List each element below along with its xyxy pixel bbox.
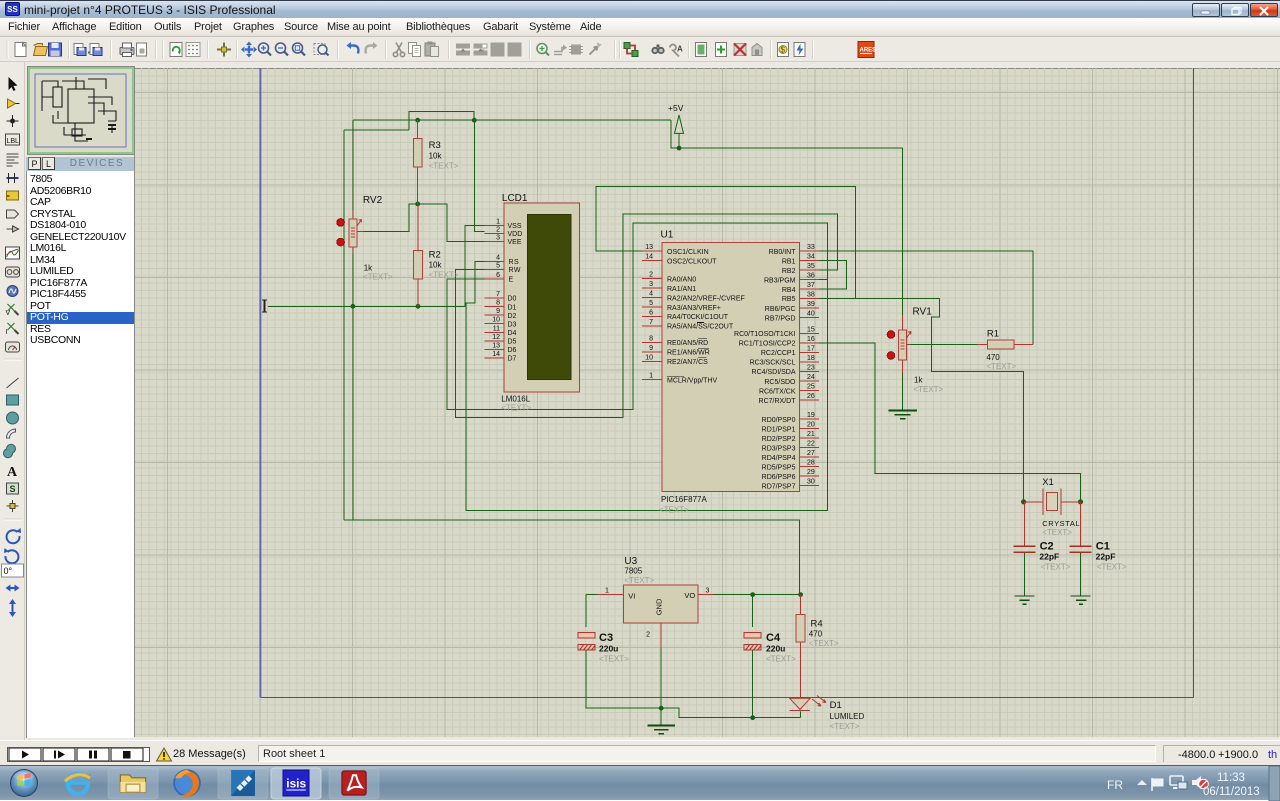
svg-text:RD7/PSP7: RD7/PSP7 bbox=[762, 483, 796, 490]
tool closed-path bbox=[4, 444, 16, 457]
svg-text:U1: U1 bbox=[661, 229, 674, 240]
wire C2 below plates bbox=[1024, 553, 1026, 596]
svg-text:R4: R4 bbox=[811, 619, 823, 630]
tool subcircuit bbox=[7, 191, 19, 200]
icon electrical-check bbox=[794, 43, 805, 57]
svg-text:1: 1 bbox=[605, 588, 609, 595]
svg-text:RC6/TX/CK: RC6/TX/CK bbox=[759, 388, 796, 395]
resistor R4 bbox=[796, 595, 839, 699]
U1 left pins bbox=[642, 251, 662, 380]
tool instrument bbox=[6, 342, 20, 352]
tool rotate-ccw bbox=[5, 550, 18, 563]
svg-text:R3: R3 bbox=[429, 140, 441, 151]
icon copy bbox=[409, 43, 421, 57]
wire +5V top rail y=120 bbox=[344, 112, 903, 149]
capacitor C2 bbox=[1014, 502, 1071, 572]
U1 left pin names bbox=[667, 249, 745, 385]
svg-text:U3: U3 bbox=[624, 556, 637, 567]
tool mirror-x bbox=[6, 585, 20, 592]
svg-text:7805: 7805 bbox=[624, 566, 642, 575]
svg-text:$: $ bbox=[781, 45, 786, 54]
tray volume muted bbox=[1192, 776, 1208, 789]
svg-text:isis: isis bbox=[286, 776, 306, 790]
icon wire-autorouter bbox=[624, 43, 638, 57]
overview sheet border bbox=[35, 74, 126, 147]
svg-text:RW: RW bbox=[509, 267, 522, 274]
icon pick bbox=[537, 44, 549, 56]
svg-text:RA2/AN2/VREF-/CVREF: RA2/AN2/VREF-/CVREF bbox=[667, 295, 745, 302]
resistor R1 bbox=[977, 329, 1033, 372]
icon import bbox=[74, 44, 86, 56]
tool graph bbox=[6, 247, 20, 259]
icon zoom-out bbox=[276, 43, 289, 56]
icon add-sheet bbox=[716, 43, 727, 57]
wire C3 verticals bbox=[586, 595, 801, 718]
svg-text:06/11/2013: 06/11/2013 bbox=[1203, 786, 1260, 798]
show desktop bbox=[1269, 766, 1280, 801]
svg-text:S: S bbox=[10, 484, 16, 494]
svg-text:3: 3 bbox=[496, 235, 500, 242]
svg-text:22: 22 bbox=[807, 441, 815, 448]
svg-text:RA5/AN4/SS/C2OUT: RA5/AN4/SS/C2OUT bbox=[667, 324, 734, 331]
LCD1 pin names bbox=[508, 223, 523, 363]
tool tape bbox=[6, 267, 20, 277]
svg-text:2: 2 bbox=[646, 632, 650, 639]
svg-text:D4: D4 bbox=[508, 330, 517, 337]
svg-text:1k: 1k bbox=[364, 264, 373, 273]
svg-text:RD5/PSP5: RD5/PSP5 bbox=[762, 464, 796, 471]
svg-text:26: 26 bbox=[807, 393, 815, 400]
svg-text:RC0/T1OSO/T1CKI: RC0/T1OSO/T1CKI bbox=[734, 331, 796, 338]
svg-text:RD3/PSP3: RD3/PSP3 bbox=[762, 445, 796, 452]
U1 pin name overlines bbox=[667, 322, 709, 376]
wire RV1 top drop bbox=[902, 148, 904, 315]
wire pin34-pin37 hook bbox=[819, 261, 846, 290]
svg-text:VI: VI bbox=[628, 592, 635, 601]
U3 pin numbers bbox=[605, 588, 710, 639]
capacitor C1 bbox=[1070, 502, 1127, 572]
svg-text:30: 30 bbox=[807, 479, 815, 486]
svg-text:25: 25 bbox=[807, 384, 815, 391]
tool bus bbox=[7, 177, 19, 179]
svg-text:3: 3 bbox=[706, 588, 710, 595]
svg-text:470: 470 bbox=[986, 353, 1000, 362]
svg-text:19: 19 bbox=[807, 412, 815, 419]
svg-text:12: 12 bbox=[492, 334, 500, 341]
svg-text:10k: 10k bbox=[429, 151, 443, 160]
tool circle bbox=[7, 412, 19, 424]
svg-text:+5V: +5V bbox=[668, 103, 684, 113]
potentiometer RV2 bbox=[337, 195, 393, 282]
ground U3 bbox=[648, 725, 675, 734]
start orb bbox=[10, 769, 38, 797]
svg-text:LBL: LBL bbox=[7, 138, 20, 145]
svg-text:<TEXT>: <TEXT> bbox=[1097, 563, 1127, 572]
wire RV2 top drop bbox=[352, 120, 354, 212]
svg-text:6: 6 bbox=[649, 309, 653, 316]
svg-text:D7: D7 bbox=[508, 356, 517, 363]
power symbol +5V bbox=[668, 103, 684, 148]
svg-text:RC4/SDI/SDA: RC4/SDI/SDA bbox=[752, 369, 796, 376]
svg-text:RS: RS bbox=[509, 259, 520, 266]
tool line bbox=[7, 378, 19, 388]
svg-text:28: 28 bbox=[807, 460, 815, 467]
tool text bbox=[7, 154, 19, 166]
taskbar isis button (active) bbox=[271, 768, 321, 799]
icon print-mark bbox=[137, 43, 147, 56]
svg-text:RC7/RX/DT: RC7/RX/DT bbox=[759, 398, 797, 405]
svg-text:10k: 10k bbox=[429, 261, 443, 270]
svg-text:RD1/PSP1: RD1/PSP1 bbox=[762, 426, 796, 433]
svg-text:D6: D6 bbox=[508, 347, 517, 354]
svg-text:VSS: VSS bbox=[508, 223, 522, 230]
icon refresh bbox=[170, 43, 182, 57]
svg-text:RC2/CCP1: RC2/CCP1 bbox=[761, 350, 796, 357]
svg-text:220u: 220u bbox=[766, 643, 785, 653]
resistor R2 bbox=[414, 204, 459, 306]
wire U3 GND down bbox=[660, 648, 662, 725]
tool voltage-probe bbox=[8, 304, 15, 311]
ground C2 bbox=[1015, 596, 1035, 604]
wire U3 VO rail bbox=[713, 594, 801, 596]
svg-text:RA4/T0CKI/C1OUT: RA4/T0CKI/C1OUT bbox=[667, 314, 729, 321]
svg-text:MCLR/Vpp/THV: MCLR/Vpp/THV bbox=[667, 378, 718, 385]
icon block-move bbox=[474, 44, 488, 56]
svg-text:39: 39 bbox=[807, 301, 815, 308]
svg-text:6: 6 bbox=[496, 272, 500, 279]
svg-text:21: 21 bbox=[807, 431, 815, 438]
svg-text:D5: D5 bbox=[508, 339, 517, 346]
icon bom bbox=[778, 43, 789, 57]
icon grid bbox=[186, 43, 200, 57]
svg-text:24: 24 bbox=[807, 374, 815, 381]
LCD LCD1 bbox=[501, 193, 579, 412]
capacitor C3 bbox=[578, 632, 629, 663]
svg-text:<TEXT>: <TEXT> bbox=[363, 273, 393, 282]
svg-text:9: 9 bbox=[649, 345, 653, 352]
tray network bbox=[1170, 776, 1187, 789]
U1 right pin names bbox=[734, 249, 796, 490]
LED D1 bbox=[790, 696, 865, 731]
separator bbox=[4, 358, 22, 360]
wire RV1 bottom to ground bbox=[902, 372, 904, 410]
svg-text:VEE: VEE bbox=[508, 239, 522, 246]
taskbar explorer button bbox=[108, 768, 158, 799]
icon block-delete bbox=[508, 43, 522, 57]
icon package bbox=[569, 45, 583, 55]
wire mid rail y=520 bbox=[344, 520, 800, 594]
svg-text:FR: FR bbox=[1107, 778, 1123, 792]
svg-text:11: 11 bbox=[493, 326, 500, 333]
wire RV2 bottom vertical bbox=[352, 252, 354, 520]
svg-text:14: 14 bbox=[645, 254, 653, 261]
tool pin bbox=[7, 226, 19, 232]
svg-text:10: 10 bbox=[492, 317, 500, 324]
tool symbol bbox=[7, 483, 19, 494]
svg-text:RB3/PGM: RB3/PGM bbox=[764, 277, 796, 284]
svg-text:<TEXT>: <TEXT> bbox=[659, 506, 689, 515]
svg-text:34: 34 bbox=[807, 254, 815, 261]
svg-text:<TEXT>: <TEXT> bbox=[429, 271, 459, 280]
icon pan bbox=[241, 42, 257, 58]
sim play button bbox=[9, 748, 41, 761]
svg-text:<TEXT>: <TEXT> bbox=[429, 161, 459, 170]
svg-text:8: 8 bbox=[649, 335, 653, 342]
svg-text:13: 13 bbox=[645, 244, 653, 251]
icon zoom-in bbox=[259, 43, 272, 56]
svg-text:RA0/AN0: RA0/AN0 bbox=[667, 276, 696, 283]
tool marker bbox=[7, 500, 19, 512]
angle box bbox=[2, 564, 24, 577]
svg-text:RE2/AN7/CS: RE2/AN7/CS bbox=[667, 359, 708, 366]
potentiometer RV1 bbox=[887, 307, 943, 394]
svg-text:7: 7 bbox=[496, 291, 500, 298]
icon open bbox=[34, 44, 48, 56]
svg-text:27: 27 bbox=[807, 450, 815, 457]
sim step button bbox=[43, 748, 75, 761]
svg-text:1k: 1k bbox=[914, 376, 923, 385]
svg-text:R1: R1 bbox=[987, 329, 999, 340]
wire end cursor bbox=[262, 300, 267, 312]
svg-text:8: 8 bbox=[496, 300, 500, 307]
wire C1 below plates bbox=[1080, 553, 1082, 596]
tool mirror-y bbox=[9, 599, 16, 617]
icon new-sheet bbox=[696, 43, 707, 57]
svg-text:20: 20 bbox=[807, 422, 815, 429]
svg-text:D1: D1 bbox=[830, 700, 842, 711]
overview mini schematic bbox=[42, 77, 116, 141]
svg-text:5: 5 bbox=[649, 300, 653, 307]
svg-text:<TEXT>: <TEXT> bbox=[809, 639, 839, 648]
svg-text:38: 38 bbox=[807, 291, 815, 298]
tool label bbox=[6, 134, 20, 145]
overview frame bbox=[29, 68, 133, 153]
icon property-tool bbox=[670, 45, 683, 57]
svg-text:A: A bbox=[677, 45, 683, 54]
svg-text:D1: D1 bbox=[508, 304, 517, 311]
icon block-copy bbox=[456, 44, 470, 56]
wire ground rail y=306 bbox=[268, 305, 465, 307]
svg-text:R2: R2 bbox=[429, 249, 441, 260]
svg-text:V: V bbox=[6, 310, 11, 317]
svg-text:LM016L: LM016L bbox=[501, 395, 530, 404]
wire RV1 wiper to R1 bbox=[909, 344, 977, 346]
wire pin33 to R1 bbox=[819, 251, 1033, 345]
svg-text:RC1/T1OSI/CCP2: RC1/T1OSI/CCP2 bbox=[739, 341, 796, 348]
svg-text:RB4: RB4 bbox=[782, 287, 796, 294]
svg-text:LUMILED: LUMILED bbox=[830, 712, 865, 721]
svg-text:<TEXT>: <TEXT> bbox=[986, 362, 1016, 371]
wire U3 VI link bbox=[586, 594, 597, 596]
svg-text:OSC1/CLKIN: OSC1/CLKIN bbox=[667, 249, 709, 256]
tool arc bbox=[7, 429, 16, 438]
svg-text:23: 23 bbox=[807, 364, 815, 371]
wire VDD bbox=[474, 120, 484, 231]
svg-text:3: 3 bbox=[649, 281, 653, 288]
svg-text:I: I bbox=[6, 329, 8, 336]
svg-text:2: 2 bbox=[496, 227, 500, 234]
svg-text:PIC16F877A: PIC16F877A bbox=[661, 495, 707, 504]
svg-text:D0: D0 bbox=[508, 296, 517, 303]
LCD1 pin numbers bbox=[492, 218, 500, 358]
svg-text:<TEXT>: <TEXT> bbox=[624, 576, 654, 585]
svg-text:13: 13 bbox=[492, 343, 500, 350]
svg-text:1: 1 bbox=[496, 218, 500, 225]
icon make-device bbox=[554, 45, 567, 55]
U3 pins bbox=[597, 595, 713, 648]
icon save bbox=[49, 43, 62, 56]
capacitor C4 bbox=[744, 632, 796, 663]
sheet border bbox=[260, 68, 1194, 698]
tool box bbox=[7, 395, 19, 405]
svg-text:D3: D3 bbox=[508, 321, 517, 328]
svg-text:ARES: ARES bbox=[860, 48, 877, 54]
tool junction bbox=[7, 115, 19, 127]
svg-text:33: 33 bbox=[807, 244, 815, 251]
icon paste bbox=[425, 42, 439, 57]
svg-text:16: 16 bbox=[807, 336, 815, 343]
icon cut bbox=[393, 43, 404, 57]
svg-text:RV1: RV1 bbox=[913, 307, 933, 318]
icon block-rotate bbox=[491, 43, 505, 57]
icon ares bbox=[858, 42, 876, 58]
svg-text:0°: 0° bbox=[4, 566, 13, 576]
icon new bbox=[15, 43, 26, 57]
svg-text:RA3/AN3/VREF+: RA3/AN3/VREF+ bbox=[667, 305, 721, 312]
svg-text:11:33: 11:33 bbox=[1217, 772, 1245, 784]
svg-text:<TEXT>: <TEXT> bbox=[1041, 563, 1071, 572]
svg-text:<TEXT>: <TEXT> bbox=[766, 655, 796, 664]
svg-text:E: E bbox=[509, 277, 514, 284]
sim stop button bbox=[111, 748, 143, 761]
taskbar firefox bbox=[173, 769, 201, 797]
separator2 bbox=[4, 518, 22, 520]
tool selector bbox=[9, 77, 18, 91]
icon zoom-100 bbox=[293, 43, 306, 56]
svg-text:470: 470 bbox=[809, 630, 823, 639]
svg-text:D2: D2 bbox=[508, 313, 517, 320]
wire LCD RW nest bbox=[456, 214, 838, 417]
svg-text:29: 29 bbox=[807, 469, 815, 476]
warning icon bbox=[157, 748, 172, 761]
svg-text:18: 18 bbox=[807, 355, 815, 362]
svg-text:RD2/PSP2: RD2/PSP2 bbox=[762, 436, 796, 443]
svg-text:22pF: 22pF bbox=[1096, 551, 1116, 561]
svg-text:220u: 220u bbox=[599, 643, 618, 653]
svg-text:C3: C3 bbox=[599, 632, 613, 644]
tray flag bbox=[1152, 778, 1163, 791]
PIC16F877A U1 bbox=[659, 229, 800, 514]
taskbar proteus button bbox=[218, 768, 268, 799]
svg-text:LCD1: LCD1 bbox=[502, 193, 528, 204]
svg-text:36: 36 bbox=[807, 273, 815, 280]
svg-text:RB0/INT: RB0/INT bbox=[769, 249, 797, 256]
svg-text:<TEXT>: <TEXT> bbox=[501, 403, 531, 412]
svg-text:35: 35 bbox=[807, 263, 815, 270]
svg-text:40: 40 bbox=[807, 311, 815, 318]
svg-text:OSC2/CLKOUT: OSC2/CLKOUT bbox=[667, 259, 717, 266]
tray up arrow bbox=[1137, 780, 1147, 785]
icon search bbox=[651, 45, 664, 55]
wire RV2 left vertical bbox=[343, 130, 345, 520]
svg-text:GND: GND bbox=[655, 598, 664, 615]
resistor R3 bbox=[413, 120, 458, 204]
svg-text:RB1: RB1 bbox=[782, 258, 796, 265]
svg-text:X1: X1 bbox=[1042, 477, 1054, 488]
svg-text:RE1/AN6/WR: RE1/AN6/WR bbox=[667, 350, 710, 357]
wire LCD RS nest bbox=[447, 223, 827, 511]
svg-text:RC5/SDO: RC5/SDO bbox=[764, 379, 796, 386]
U1 left pin numbers bbox=[645, 244, 653, 380]
icon print bbox=[120, 43, 134, 57]
svg-text:5: 5 bbox=[496, 262, 500, 269]
wire pin36 stub link bbox=[819, 279, 827, 281]
svg-text:RC3/SCK/SCL: RC3/SCK/SCL bbox=[750, 360, 796, 367]
svg-text:RD0/PSP0: RD0/PSP0 bbox=[762, 417, 796, 424]
svg-text:10: 10 bbox=[645, 354, 653, 361]
svg-text:7: 7 bbox=[649, 319, 653, 326]
svg-text:<TEXT>: <TEXT> bbox=[830, 722, 860, 731]
wire VEE node bbox=[363, 204, 484, 242]
wire pin38 link bbox=[819, 297, 856, 299]
svg-text:RD6/PSP6: RD6/PSP6 bbox=[762, 474, 796, 481]
svg-text:9: 9 bbox=[496, 308, 500, 315]
regulator U3 7805 bbox=[624, 556, 698, 623]
svg-text:VDD: VDD bbox=[508, 231, 523, 238]
svg-text:RV2: RV2 bbox=[363, 195, 383, 206]
svg-text:17: 17 bbox=[807, 345, 815, 352]
svg-text:RD4/PSP4: RD4/PSP4 bbox=[762, 455, 796, 462]
svg-text:RB5: RB5 bbox=[782, 296, 796, 303]
U1 right pins bbox=[800, 251, 820, 486]
svg-text:37: 37 bbox=[807, 282, 815, 289]
svg-text:RE0/AN5/RD: RE0/AN5/RD bbox=[667, 340, 708, 347]
svg-text:RB7/PGD: RB7/PGD bbox=[765, 315, 796, 322]
icon goto-sheet bbox=[752, 44, 762, 56]
svg-text:4: 4 bbox=[496, 254, 500, 261]
tool generator bbox=[7, 286, 18, 297]
svg-text:1: 1 bbox=[649, 373, 653, 380]
svg-text:CRYSTAL: CRYSTAL bbox=[1042, 519, 1080, 528]
LCD1 pins bbox=[484, 225, 504, 358]
icon export bbox=[88, 44, 102, 56]
icon decompose bbox=[590, 43, 602, 55]
icon origin bbox=[217, 43, 231, 57]
tool component bbox=[8, 99, 16, 108]
svg-text:RA1/AN1: RA1/AN1 bbox=[667, 286, 696, 293]
wire VSS bbox=[465, 225, 484, 306]
wire pin16 to X1 right bbox=[819, 343, 1081, 502]
svg-text:4: 4 bbox=[649, 291, 653, 298]
taskbar adobe button bbox=[329, 768, 379, 799]
taskbar IE icon bbox=[65, 774, 91, 794]
icon redo bbox=[366, 42, 378, 54]
svg-text:<TEXT>: <TEXT> bbox=[913, 385, 943, 394]
svg-text:<TEXT>: <TEXT> bbox=[1042, 528, 1072, 537]
svg-text:C4: C4 bbox=[766, 632, 781, 644]
svg-text:A: A bbox=[7, 465, 18, 480]
crystal X1 bbox=[1025, 477, 1081, 537]
tool terminal bbox=[7, 210, 19, 218]
icon zoom-area bbox=[314, 44, 329, 56]
svg-text:22pF: 22pF bbox=[1039, 551, 1059, 561]
icon remove-sheet bbox=[734, 44, 746, 56]
tool rotate-cw bbox=[7, 530, 20, 543]
icon undo bbox=[347, 42, 359, 54]
svg-text:RB6/PGC: RB6/PGC bbox=[765, 306, 796, 313]
U1 right pin numbers bbox=[807, 244, 815, 486]
svg-text:15: 15 bbox=[807, 326, 815, 333]
